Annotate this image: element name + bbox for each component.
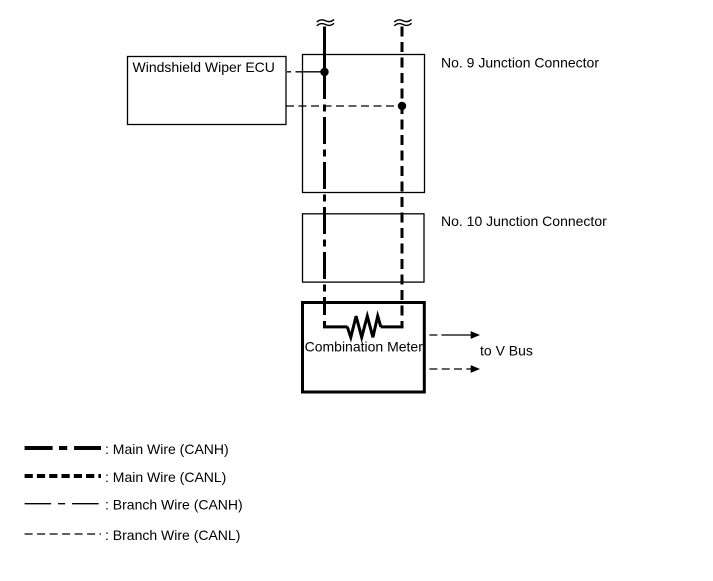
no. 10 junction connector box xyxy=(303,214,425,282)
wire: main wire CANH, solid upper segment xyxy=(323,27,326,73)
junction: CANL branch node xyxy=(398,102,406,110)
wire: main wire CANH, dash-dot vertical run xyxy=(323,72,326,315)
wire: CANH elbow to terminating resistor xyxy=(325,321,348,327)
legend sample: branch wire CANH (thin dash-dot) xyxy=(25,503,100,505)
resistor: CAN bus terminating resistor inside combination meter xyxy=(347,316,381,337)
svg-text:No. 9 Junction Connector: No. 9 Junction Connector xyxy=(441,54,599,70)
junction: CANH branch node xyxy=(320,68,328,76)
break symbol (top of CANL main wire) xyxy=(395,20,411,26)
svg-text:: Branch Wire (CANH): : Branch Wire (CANH) xyxy=(105,497,243,513)
wire: branch wire CANL (ECU to CANL main wire) xyxy=(286,105,402,107)
wire: branch wire CANH (ECU to CANH main wire) xyxy=(286,71,325,73)
svg-text:to V Bus: to V Bus xyxy=(480,343,533,359)
arrow: to V Bus (CANL branch out, dashed) xyxy=(429,365,480,373)
svg-text:Combination Meter: Combination Meter xyxy=(305,339,424,355)
svg-text:: Main Wire (CANH): : Main Wire (CANH) xyxy=(105,441,229,457)
windshield wiper ECU box xyxy=(128,57,287,125)
arrow: to V Bus (CANH branch out) xyxy=(429,331,480,339)
wire: main wire CANL, dashed vertical run xyxy=(401,27,404,317)
svg-text:Windshield Wiper ECU: Windshield Wiper ECU xyxy=(133,59,275,75)
svg-text:: Branch Wire (CANL): : Branch Wire (CANL) xyxy=(105,527,240,543)
svg-text:: Main Wire (CANL): : Main Wire (CANL) xyxy=(105,469,226,485)
no. 9 junction connector box xyxy=(303,55,425,193)
legend sample: main wire CANL (thick dashed) xyxy=(25,474,101,478)
legend sample: main wire CANH (thick dash-dot) xyxy=(25,446,101,450)
combination meter box xyxy=(303,303,425,393)
legend sample: branch wire CANL (thin dashed) xyxy=(25,533,101,535)
wire: CANL elbow to terminating resistor xyxy=(381,321,402,327)
svg-text:No. 10 Junction Connector: No. 10 Junction Connector xyxy=(441,213,607,229)
break symbol (top of CANH main wire) xyxy=(317,20,333,26)
